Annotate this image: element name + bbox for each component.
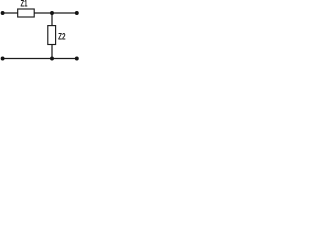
terminal: output bottom <box>75 57 79 61</box>
terminal: output top <box>75 11 79 15</box>
impedance Z2 (shunt box) <box>48 26 56 45</box>
svg-text:Z1: Z1 <box>21 0 28 8</box>
svg-text:Z2: Z2 <box>58 32 66 43</box>
impedance Z1 (series box) <box>18 9 35 17</box>
wire: top rail from input terminal to output terminal <box>3 12 77 14</box>
terminal: input bottom <box>1 57 5 61</box>
terminal: input top <box>1 11 5 15</box>
wire: shunt branch from node A down to bottom rail <box>51 13 53 59</box>
wire: bottom rail from input terminal to output terminal <box>3 58 77 60</box>
node B: junction dot bottom (shunt tap) <box>50 57 54 61</box>
node A: junction dot top (shunt tap) <box>50 11 54 15</box>
